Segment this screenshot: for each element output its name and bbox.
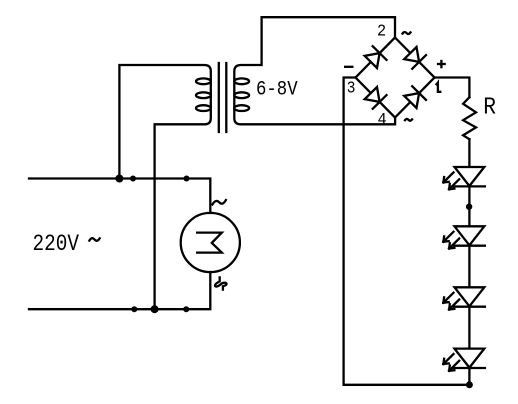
- wire: bridge edge 4-1: [395, 78, 435, 118]
- svg-text:3: 3: [347, 79, 356, 98]
- transformer T1 secondary winding + wires to bridge nodes 2 and 4: [234, 17, 395, 124]
- junction: top rail / primary lead: [115, 175, 123, 183]
- ~ mark after 220V: [89, 237, 100, 241]
- vertical ~ mark below lamp: [215, 277, 227, 289]
- ~ mark above lamp: [212, 200, 226, 204]
- terminal dot on bottom rail: [131, 306, 137, 312]
- LED VD1: [455, 167, 485, 186]
- terminal dot on top rail (lamp): [184, 176, 190, 182]
- LED VD3: [455, 287, 485, 306]
- transformer core: [218, 63, 220, 132]
- junction dot between LED1 and LED2: [466, 204, 472, 210]
- wire: bridge edge 3-4: [356, 78, 396, 118]
- wire: node 1 to resistor R: [435, 78, 470, 98]
- - mark at bridge node 3: [344, 66, 354, 68]
- diode VD4 (bridge, 4 to 1): [404, 93, 419, 108]
- svg-text:4: 4: [378, 111, 387, 130]
- ~ mark at bridge node 2: [402, 31, 411, 34]
- terminal dot on top rail: [130, 176, 136, 182]
- + mark at bridge node 1: [437, 63, 446, 65]
- lamp EL1 (circle with zigzag): [181, 213, 240, 272]
- wire: node 3 down and along bottom to LED cathode: [344, 78, 470, 385]
- diode VD2 (bridge, 2 to 1): [404, 47, 419, 62]
- junction: LED chain / bottom return wire: [466, 381, 473, 388]
- LED VD2: [455, 226, 485, 245]
- wire: bridge edge 3-2: [356, 38, 396, 78]
- wire: bottom 220V rail to lamp bottom: [29, 272, 210, 309]
- diode VD1 (bridge, 3 to 2): [365, 53, 380, 68]
- junction: bottom rail / primary lead: [151, 305, 159, 313]
- svg-text:2: 2: [377, 22, 386, 41]
- svg-text:R: R: [483, 93, 496, 120]
- wire + transformer T1 primary winding: [119, 65, 210, 309]
- ~ mark at bridge node 4: [404, 118, 412, 121]
- wire: top 220V rail to lamp top: [29, 179, 210, 214]
- LED VD4: [455, 349, 485, 368]
- svg-text:6-8V: 6-8V: [256, 77, 298, 101]
- diode VD3 (bridge, 3 to 4): [365, 87, 380, 102]
- label node 1: [436, 83, 442, 92]
- resistor R: [463, 97, 476, 139]
- wire: bridge edge 2-1: [395, 38, 435, 78]
- terminal dot on bottom rail (lamp): [183, 306, 189, 312]
- wire: LED chain vertical: [468, 139, 470, 385]
- svg-text:220V: 220V: [33, 232, 80, 258]
